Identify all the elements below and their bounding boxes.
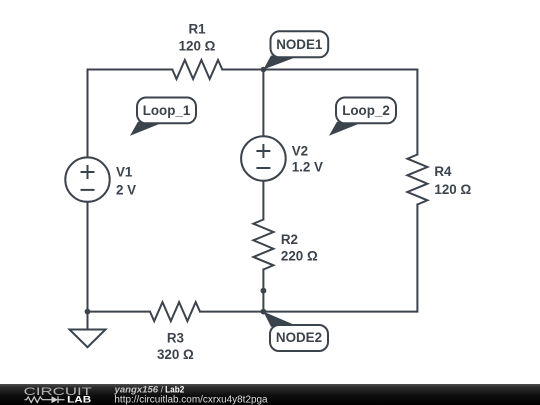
svg-text:R3: R3	[167, 330, 184, 345]
svg-text:NODE1: NODE1	[276, 37, 323, 52]
svg-text:R1: R1	[188, 22, 206, 37]
resistor R2 zigzag	[253, 220, 273, 270]
svg-text:120 Ω: 120 Ω	[179, 39, 216, 54]
svg-text:120 Ω: 120 Ω	[434, 182, 471, 197]
resistor R1 zigzag	[172, 60, 222, 79]
resistor R4 zigzag	[407, 155, 427, 205]
svg-text:220 Ω: 220 Ω	[281, 248, 318, 263]
wire: bottom-left, ground junction to R3 left terminal	[88, 311, 151, 313]
svg-text:R4: R4	[434, 164, 452, 179]
wire: left branch, V1 top to top-left corner to R1 left terminal	[88, 70, 173, 158]
svg-text:2 V: 2 V	[116, 182, 136, 197]
wire: R1 right terminal to NODE1 to top-right corner down to R4 top	[222, 70, 417, 155]
wire: V2 bottom to R2 top	[262, 181, 264, 220]
flag NODE2 callout	[263, 312, 328, 351]
node ground junction dot	[85, 309, 91, 315]
flag Loop_1 callout	[130, 98, 196, 136]
wire: V1 bottom to ground junction	[87, 202, 89, 312]
voltage source V1	[65, 157, 109, 201]
CircuitLab logo: resistor-diode doodle	[25, 396, 65, 403]
svg-text:V2: V2	[292, 143, 308, 158]
svg-text:http://circuitlab.com/cxrxu4y8: http://circuitlab.com/cxrxu4y8t2pga	[114, 395, 268, 405]
flag NODE1 callout	[263, 31, 328, 69]
wire: R3 right terminal through NODE2 to bottom-right corner up to R4 bottom	[200, 205, 417, 312]
svg-text:Loop_1: Loop_1	[143, 103, 191, 118]
node junction dot at R2 bottom	[261, 288, 267, 294]
svg-text:LAB: LAB	[67, 394, 91, 404]
footer bar	[0, 384, 540, 405]
svg-text:NODE2: NODE2	[276, 330, 322, 345]
ground symbol	[70, 330, 106, 348]
wire: NODE1 junction down to V2 top	[262, 70, 264, 137]
svg-text:R2: R2	[281, 232, 298, 247]
svg-text:320 Ω: 320 Ω	[157, 347, 194, 362]
flag Loop_2 callout	[329, 98, 396, 136]
voltage source V2	[241, 136, 286, 181]
ground stub wire	[87, 312, 89, 330]
resistor R3 zigzag	[150, 302, 200, 321]
svg-text:1.2 V: 1.2 V	[292, 160, 323, 175]
node NODE2 junction dot	[261, 309, 267, 315]
wire: R2 bottom to NODE2 junction	[262, 270, 264, 312]
svg-text:Loop_2: Loop_2	[342, 103, 390, 118]
svg-text:V1: V1	[116, 165, 133, 180]
node NODE1 junction dot	[261, 67, 267, 73]
